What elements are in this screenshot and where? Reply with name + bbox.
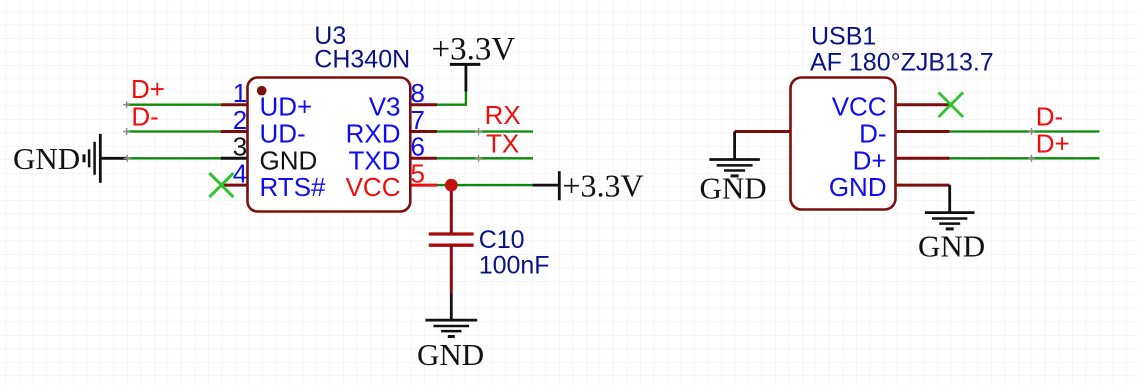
- svg-text:4: 4: [233, 159, 247, 189]
- svg-text:USB1: USB1: [811, 23, 876, 51]
- svg-text:5: 5: [411, 159, 425, 189]
- svg-text:2: 2: [233, 105, 247, 135]
- svg-text:GND: GND: [13, 141, 80, 176]
- svg-text:VCC: VCC: [346, 172, 401, 202]
- svg-text:D+: D+: [131, 74, 165, 104]
- svg-text:D-: D-: [859, 119, 886, 149]
- svg-text:UD+: UD+: [260, 92, 313, 122]
- svg-text:100nF: 100nF: [479, 252, 550, 280]
- svg-text:3: 3: [233, 132, 247, 162]
- svg-text:C10: C10: [479, 226, 525, 254]
- svg-text:TX: TX: [486, 129, 519, 159]
- svg-text:RXD: RXD: [346, 119, 401, 149]
- svg-text:VCC: VCC: [832, 92, 887, 122]
- svg-text:GND: GND: [417, 337, 484, 372]
- svg-text:GND: GND: [918, 229, 985, 264]
- svg-text:RX: RX: [485, 100, 521, 130]
- svg-text:6: 6: [411, 132, 425, 162]
- svg-text:GND: GND: [700, 171, 767, 206]
- svg-text:8: 8: [411, 78, 425, 108]
- svg-text:UD-: UD-: [260, 119, 306, 149]
- svg-text:GND: GND: [260, 145, 318, 175]
- svg-text:+3.3V: +3.3V: [432, 32, 516, 68]
- svg-text:D+: D+: [853, 145, 887, 175]
- svg-text:1: 1: [233, 78, 247, 108]
- svg-text:GND: GND: [829, 172, 887, 202]
- svg-text:AF 180°ZJB13.7: AF 180°ZJB13.7: [810, 49, 994, 77]
- svg-text:D+: D+: [1036, 129, 1070, 159]
- svg-text:7: 7: [411, 105, 425, 135]
- svg-text:D-: D-: [1036, 101, 1063, 131]
- svg-text:V3: V3: [369, 92, 401, 122]
- svg-text:CH340N: CH340N: [314, 46, 410, 74]
- svg-text:+3.3V: +3.3V: [563, 168, 644, 204]
- svg-text:TXD: TXD: [349, 145, 401, 175]
- svg-text:D-: D-: [131, 101, 158, 131]
- svg-text:RTS#: RTS#: [260, 172, 327, 202]
